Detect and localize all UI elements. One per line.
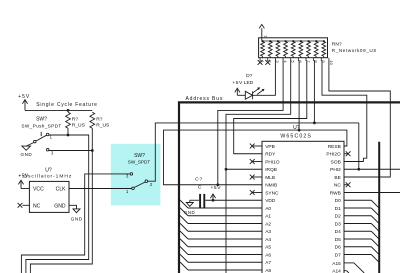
- wire D7: [344, 254, 371, 256]
- junction node NMIB: [216, 183, 219, 186]
- svg-text:A1: A1: [265, 214, 271, 220]
- junction node RN common 3: [277, 40, 279, 42]
- svg-text:C?: C?: [195, 176, 203, 182]
- oscillator U? Oscillator-1MHz: [29, 181, 69, 212]
- bus entry D1: [371, 208, 379, 216]
- wire R1 bottom: [67, 128, 69, 135]
- junction node RN common 7: [307, 40, 309, 42]
- wire A7: [188, 261, 262, 263]
- wire A3: [188, 230, 262, 232]
- svg-text:1: 1: [264, 35, 268, 37]
- junction node R1 top: [67, 109, 70, 112]
- svg-text:RDY: RDY: [265, 152, 276, 158]
- svg-text:D4: D4: [335, 229, 341, 235]
- junction node VDD: [212, 199, 215, 202]
- wire D4: [344, 230, 371, 232]
- wire RDY net: [234, 60, 307, 154]
- wire A1: [188, 215, 262, 217]
- ground (C1): [189, 200, 191, 202]
- RN pin 9: [320, 58, 322, 61]
- resistor RN element 4: [284, 42, 288, 57]
- wire push pin3 net: [49, 150, 92, 152]
- svg-text:SW_Push_SPDT: SW_Push_SPDT: [21, 123, 61, 128]
- bus entry D7: [371, 255, 379, 263]
- svg-text:10: 10: [329, 60, 334, 65]
- svg-text:VCC: VCC: [33, 187, 44, 193]
- resistor network RN? R_Network09_US: [259, 38, 328, 58]
- svg-text:VPB: VPB: [265, 144, 275, 150]
- wire A14: [344, 270, 347, 272]
- svg-text:NC: NC: [33, 203, 41, 209]
- svg-text:A5: A5: [265, 245, 271, 251]
- svg-text:Address Bus: Address Bus: [186, 96, 224, 102]
- wire LED anode: [237, 94, 245, 96]
- RN pin 3: [274, 58, 276, 61]
- svg-text:R_US: R_US: [96, 122, 110, 128]
- no-connect PHI2O: [344, 153, 348, 155]
- wire D0: [344, 199, 371, 201]
- RN pin 1: [259, 58, 261, 61]
- bus entry A15: [354, 263, 364, 273]
- bus entry D5: [371, 239, 379, 247]
- wire VDD: [205, 199, 262, 201]
- svg-text:D6: D6: [335, 245, 341, 251]
- RN pin 2: [267, 58, 269, 61]
- no-connect NC: [344, 184, 348, 186]
- op-amp U? W65C02S CPU: [262, 141, 344, 273]
- svg-text:R_US: R_US: [72, 122, 86, 128]
- svg-text:SW_SPDT: SW_SPDT: [128, 160, 151, 165]
- wire RN pin6 branch: [298, 60, 300, 130]
- svg-text:PHI1O: PHI1O: [265, 159, 280, 165]
- resistor R1 (R? R_US): [66, 112, 71, 128]
- bus entry D3: [371, 224, 379, 232]
- svg-text:GND: GND: [54, 203, 66, 209]
- bus entry A14: [347, 271, 349, 273]
- svg-text:A8: A8: [265, 268, 271, 273]
- RN pin 7: [305, 58, 307, 61]
- svg-text:A14: A14: [332, 269, 341, 273]
- power +5V (LED): [236, 89, 238, 95]
- resistor RN element 1: [261, 42, 265, 57]
- wire CLK to SW_SPDT pin1: [69, 188, 132, 190]
- bus entry A0: [180, 200, 188, 208]
- junction node RN pin8: [313, 122, 316, 125]
- svg-text:PHI2O: PHI2O: [326, 152, 341, 158]
- wire +5V rail: [25, 109, 92, 111]
- svg-text:W65C02S: W65C02S: [280, 133, 312, 139]
- svg-text:A2: A2: [265, 221, 271, 227]
- svg-text:Oscillator-1MHz: Oscillator-1MHz: [23, 173, 72, 179]
- resistor RN element 3: [276, 42, 280, 57]
- RN pin 6: [297, 58, 299, 61]
- wire A0: [188, 207, 262, 209]
- svg-text:CLK: CLK: [56, 187, 67, 193]
- svg-text:IRQB: IRQB: [265, 167, 277, 173]
- resistor RN element 5: [291, 42, 295, 57]
- svg-text:D3: D3: [335, 221, 341, 227]
- junction node R1 bottom: [67, 134, 70, 137]
- svg-text:NC: NC: [334, 183, 341, 189]
- resistor RN element 8: [314, 42, 318, 57]
- wire SPDT pin3 net: [21, 174, 130, 273]
- resistor RN element 9: [322, 42, 326, 57]
- wire RN pin8 drop: [313, 60, 315, 123]
- wire D3: [344, 223, 371, 225]
- wire RWB out: [344, 192, 400, 194]
- wire SPDT common to PHI2: [148, 123, 359, 181]
- resistor RN element 7: [307, 42, 311, 57]
- junction node RESB net: [298, 129, 301, 132]
- highlight SW_SPDT selection: [111, 144, 161, 206]
- resistor RN element 2: [268, 42, 272, 57]
- svg-text:D5: D5: [335, 237, 341, 243]
- no-connect MLB: [252, 176, 262, 178]
- ground (push switch common): [26, 143, 33, 147]
- svg-text:R?: R?: [72, 116, 79, 122]
- wire C1 left to ground: [190, 199, 199, 201]
- wire LED cathode to RN pin3: [253, 60, 276, 95]
- no-connect RN pin 1: [258, 60, 263, 65]
- wire D5: [344, 238, 371, 240]
- svg-text:A4: A4: [265, 237, 271, 243]
- svg-text:A3: A3: [265, 229, 271, 235]
- bus entry A5: [180, 239, 188, 247]
- wire NMIB / RESB net: [164, 130, 347, 185]
- bus entry A8: [180, 262, 188, 270]
- svg-text:U?: U?: [45, 168, 52, 174]
- svg-text:Single Cycle Feature: Single Cycle Feature: [36, 102, 97, 108]
- svg-text:MLB: MLB: [265, 175, 275, 181]
- data bus: [378, 142, 380, 273]
- junction node RN common 6: [300, 40, 302, 42]
- wire A15: [344, 262, 354, 264]
- svg-text:D2: D2: [335, 214, 341, 220]
- junction node IRQB: [225, 168, 228, 171]
- svg-text:GND: GND: [184, 210, 195, 215]
- no-connect RN pin 2: [265, 60, 270, 65]
- svg-text:VDD: VDD: [265, 198, 276, 204]
- junction node RN common 1: [262, 40, 264, 42]
- wire A8: [188, 269, 262, 271]
- bus entry A3: [180, 223, 188, 231]
- svg-text:SW?: SW?: [134, 153, 145, 159]
- wire RN pin4 branch: [218, 60, 283, 185]
- resistor RN element 6: [299, 42, 303, 57]
- bus entry A1: [180, 208, 188, 216]
- svg-text:A7: A7: [265, 260, 271, 266]
- ground (oscillator): [69, 205, 77, 209]
- power +5V (oscillator VCC): [20, 181, 22, 188]
- svg-text:A15: A15: [332, 261, 341, 267]
- wire BE net: [329, 60, 390, 177]
- wire A4: [188, 238, 262, 240]
- svg-text:D?: D?: [246, 73, 253, 79]
- svg-text:GND: GND: [21, 152, 33, 157]
- junction node PHI2: [357, 168, 360, 171]
- wire SOB net: [322, 60, 367, 161]
- junction node RN common 5: [292, 40, 294, 42]
- bus entry D4: [371, 231, 379, 239]
- power +5V (RN common): [261, 28, 263, 41]
- wire D2: [344, 215, 371, 217]
- RN pin 5: [290, 58, 292, 61]
- no-connect PHI1O: [252, 161, 262, 163]
- RN pin 4: [282, 58, 284, 61]
- wire A5: [188, 246, 262, 248]
- junction node RN common 8: [315, 40, 317, 42]
- svg-text:R_Network09_US: R_Network09_US: [332, 48, 377, 53]
- bus entry A4: [180, 231, 188, 239]
- wire push pin1 net: [26, 135, 89, 273]
- svg-text:RESB: RESB: [328, 144, 341, 150]
- bus entry D6: [371, 247, 379, 255]
- RN pin 8: [313, 58, 315, 61]
- svg-text:R?: R?: [96, 116, 103, 122]
- wire A2: [188, 223, 262, 225]
- bus entry A7: [180, 254, 188, 262]
- bus entry D0: [371, 200, 379, 208]
- wire D1: [344, 207, 371, 209]
- svg-text:RWB: RWB: [330, 190, 341, 196]
- wire IRQB net: [226, 168, 262, 170]
- svg-text:D1: D1: [335, 206, 341, 212]
- svg-text:RN?: RN?: [332, 41, 342, 47]
- no-connect SYNC: [252, 192, 262, 194]
- wire A6: [188, 254, 262, 256]
- resistor R2 (R? R_US): [90, 112, 95, 128]
- junction node RN common 2: [269, 40, 271, 42]
- svg-text:LED: LED: [244, 80, 254, 86]
- svg-text:+5V: +5V: [18, 94, 30, 100]
- svg-text:GND: GND: [71, 216, 83, 221]
- svg-text:SOB: SOB: [331, 159, 341, 165]
- svg-text:BE: BE: [334, 175, 340, 181]
- no-connect osc NC: [22, 204, 29, 206]
- svg-text:SW?: SW?: [36, 117, 47, 123]
- RN pin 10: [328, 58, 330, 61]
- wire PHI2 out: [344, 168, 400, 170]
- svg-text:+5V: +5V: [232, 80, 243, 86]
- svg-text:D0: D0: [335, 198, 341, 204]
- wire R2 bottom: [91, 128, 93, 150]
- svg-text:A6: A6: [265, 252, 271, 258]
- bus entry A6: [180, 247, 188, 255]
- junction node RN common 4: [284, 40, 286, 42]
- svg-text:PHI2: PHI2: [330, 167, 341, 173]
- junction node R2 / pin3 wire: [91, 149, 94, 152]
- wire D6: [344, 246, 371, 248]
- svg-text:+5V: +5V: [210, 185, 221, 191]
- svg-text:NMIB: NMIB: [265, 183, 277, 189]
- junction node RN common 9: [323, 40, 325, 42]
- svg-text:D7: D7: [335, 252, 341, 258]
- svg-text:A0: A0: [265, 206, 271, 212]
- no-connect VPB: [252, 145, 262, 147]
- bus entry D2: [371, 216, 379, 224]
- svg-text:SYNC: SYNC: [265, 190, 279, 196]
- bus entry A2: [180, 216, 188, 224]
